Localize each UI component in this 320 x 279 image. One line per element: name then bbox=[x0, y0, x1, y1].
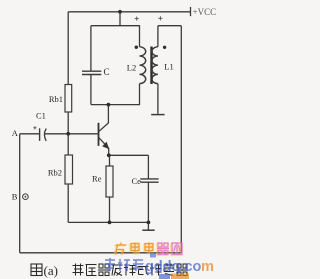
power +VCC terminal bar bbox=[190, 7, 192, 16]
ground L1 bbox=[151, 114, 164, 116]
capacitor C plates bbox=[82, 70, 101, 72]
svg-text:Rb1: Rb1 bbox=[49, 94, 63, 104]
wire left frame bbox=[19, 134, 21, 253]
svg-text:gddq.co: gddq.co bbox=[145, 259, 202, 275]
svg-text:B: B bbox=[12, 191, 18, 201]
node emitter junction bbox=[107, 153, 111, 157]
wire bottom frame bbox=[20, 252, 182, 254]
wire Rb1 bottom to base node bbox=[67, 112, 69, 134]
svg-text:C: C bbox=[104, 67, 110, 77]
node collector junction bbox=[107, 103, 111, 107]
inductor L1 winding bbox=[152, 47, 158, 84]
svg-text:C1: C1 bbox=[36, 111, 46, 121]
watermark 广电电器网 bbox=[116, 243, 183, 255]
node base junction bbox=[66, 132, 70, 136]
svg-text:+VCC: +VCC bbox=[193, 7, 217, 17]
transformer core bbox=[150, 47, 152, 85]
watermark blue gddq com bbox=[105, 258, 214, 275]
ground bottom rail bbox=[147, 222, 149, 229]
wire tank left lower bbox=[90, 75, 92, 105]
wire Rb1 branch top bbox=[67, 12, 69, 85]
svg-text:A: A bbox=[12, 128, 19, 138]
wire Ce bottom bbox=[147, 182, 149, 222]
wire right frame bbox=[180, 26, 182, 253]
node Ce bottom junction bbox=[147, 221, 151, 225]
svg-text:(a): (a) bbox=[44, 263, 58, 278]
transistor base bar bbox=[98, 123, 100, 146]
polarity plus L2 bbox=[135, 18, 139, 20]
wire base node to Rb2 bbox=[67, 134, 69, 155]
wire Re top bbox=[109, 155, 111, 166]
terminal B circle bbox=[23, 194, 29, 200]
svg-text:L1: L1 bbox=[164, 62, 173, 72]
caption 变压器反馈式振荡器 glyphs bbox=[73, 264, 189, 276]
resistor Rb1 bbox=[65, 85, 72, 113]
wire Ce top bbox=[147, 155, 149, 179]
wire bottom emitter rail bbox=[68, 221, 148, 223]
svg-text:L2: L2 bbox=[127, 63, 136, 73]
transformer phase dot L1 bbox=[163, 46, 166, 49]
wire tank feed vertical bbox=[119, 12, 121, 26]
wire Re bottom bbox=[109, 197, 111, 222]
watermark 广电电器网 yellow glow bbox=[114, 244, 181, 256]
wire C1 to base bbox=[45, 133, 98, 135]
resistor Re bbox=[106, 166, 113, 197]
wire tank bottom bbox=[91, 104, 140, 106]
wire L1 top lead bbox=[157, 26, 159, 47]
wire L2 bottom lead bbox=[139, 84, 141, 105]
resistor Rb2 bbox=[65, 155, 73, 184]
transistor emitter arrow bbox=[102, 142, 109, 150]
wire A to C1 bbox=[20, 133, 39, 135]
wire tank left upper bbox=[90, 26, 92, 71]
svg-text:Rb2: Rb2 bbox=[48, 167, 62, 177]
svg-text:Re: Re bbox=[92, 173, 102, 183]
watermark bottom fragments bbox=[150, 253, 156, 258]
transformer phase dot L2 bbox=[135, 46, 138, 49]
svg-text:m: m bbox=[201, 259, 214, 275]
transistor collector lead bbox=[99, 105, 108, 132]
wire L1 secondary top bbox=[158, 25, 181, 27]
svg-text:Ce: Ce bbox=[132, 176, 142, 186]
capacitor Ce plates bbox=[140, 178, 158, 180]
caption 图(a) bbox=[31, 264, 42, 276]
wire L2 top lead bbox=[139, 26, 141, 47]
wire top VCC rail bbox=[68, 11, 190, 13]
polarity plus C1 bbox=[33, 127, 36, 129]
wire L1 bottom lead bbox=[157, 84, 159, 114]
wire emitter to Ce bbox=[109, 154, 149, 156]
wire Rb2 bottom to ground rail bbox=[67, 184, 69, 222]
capacitor C1 straight plate bbox=[39, 128, 41, 141]
polarity plus L1 bbox=[158, 17, 162, 19]
transistor emitter lead bbox=[99, 138, 109, 156]
node VCC rail junction bbox=[118, 10, 122, 14]
wire tank top bbox=[91, 25, 140, 27]
inductor L2 winding bbox=[140, 47, 146, 84]
capacitor C1 curved plate bbox=[44, 129, 46, 141]
node Re bottom junction bbox=[108, 221, 112, 225]
